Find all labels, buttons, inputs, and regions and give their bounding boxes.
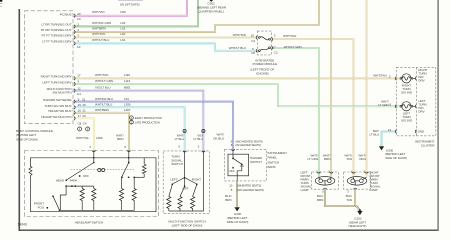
BCM internal signal labels — [41, 12, 73, 118]
svg-text:SIG IND: SIG IND — [401, 91, 413, 95]
svg-text:13: 13 — [388, 128, 392, 132]
integrated power module dashed box — [257, 31, 271, 55]
production variant circles on MF wires — [183, 129, 186, 132]
svg-text:WHT/DK BLU: WHT/DK BLU — [95, 97, 113, 101]
svg-text:19043: 19043 — [17, 222, 27, 226]
left front lamp bulb — [315, 177, 335, 186]
svg-text:CLUSTER: CLUSTER — [421, 143, 436, 147]
svg-text:BRN: BRN — [324, 157, 330, 161]
svg-text:PANEL: PANEL — [268, 156, 278, 160]
svg-text:WHT/LT GRN: WHT/LT GRN — [95, 79, 113, 83]
svg-text:ORG: ORG — [359, 157, 366, 161]
svg-text:L113: L113 — [124, 79, 131, 83]
svg-text:LT BLU: LT BLU — [369, 133, 379, 137]
svg-text:WHT/LT BLU: WHT/LT BLU — [92, 38, 109, 42]
svg-text:RIGHT: RIGHT — [192, 178, 201, 182]
svg-text:LAMP: LAMP — [301, 188, 309, 192]
wire WHT/BRN park feed (from top edge to left front lamp pin 2) — [330, 0, 332, 177]
svg-text:HDLMP SW MUX RTN: HDLMP SW MUX RTN — [41, 115, 71, 119]
BCM pin brackets — [74, 14, 75, 120]
left front park/turn signal lamp dashed box — [312, 172, 339, 189]
bottom border bar — [19, 230, 439, 231]
right lamp caption — [370, 171, 381, 193]
svg-text:WHT/YEL: WHT/YEL — [76, 136, 89, 140]
svg-text:TAN: TAN — [346, 157, 352, 161]
hazard switch bracket — [231, 149, 235, 150]
wire WHT/BRN L307 (hdlmp sw mux, to headlamp switch pin 9) — [73, 113, 129, 151]
wire WHT/LT GRN fused output (IPM pin 17 to left front turn lamp pin 1) — [272, 48, 319, 177]
svg-text:(LEFT SIDE OF DASH): (LEFT SIDE OF DASH) — [172, 224, 203, 228]
IPM pin brackets — [256, 36, 273, 53]
wire BLK/LT BLU cluster ground to G200 — [382, 132, 397, 147]
hazard feed labels — [213, 133, 224, 141]
wire WHT/DK GRN L63 (LT RR turn sig out, pin 2 to top edge) — [73, 0, 198, 26]
svg-text:LT BLU: LT BLU — [193, 137, 203, 141]
MF switch resistors — [167, 151, 204, 211]
svg-text:TAN: TAN — [346, 198, 352, 202]
ground G200 (hazard) — [234, 207, 239, 211]
ground G102 — [359, 209, 361, 211]
circled production markers under pin columns — [78, 127, 82, 131]
svg-text:LEFT TURN IND DRV: LEFT TURN IND DRV — [43, 80, 73, 84]
wire WHT/BRN L62 (RT RR turn sig out, pin 4, jog up, to top edge) — [73, 0, 319, 32]
svg-text:17: 17 — [77, 74, 81, 78]
svg-text:C8: C8 — [251, 51, 255, 55]
svg-text:17: 17 — [272, 46, 276, 50]
svg-text:INSTRUMENT: INSTRUMENT — [268, 151, 288, 155]
svg-text:C2: C2 — [274, 51, 278, 55]
svg-text:L307: L307 — [124, 108, 131, 112]
svg-text:L60: L60 — [120, 32, 125, 36]
svg-text:DRV: DRV — [418, 79, 425, 83]
svg-text:L63: L63 — [120, 21, 125, 25]
top area: liftgate connector caption — [118, 0, 143, 2]
svg-text:PARK: PARK — [70, 178, 78, 182]
svg-text:WHT/TAN: WHT/TAN — [95, 73, 108, 77]
svg-text:LATE PRODUCTION: LATE PRODUCTION — [135, 121, 160, 125]
svg-text:HEADLAMP SWITCH: HEADLAMP SWITCH — [75, 221, 104, 225]
svg-text:BANK: BANK — [268, 165, 276, 169]
svg-text:WHT/LT BLU: WHT/LT BLU — [95, 103, 112, 107]
wire WHT/TAN fused output (IPM pin 3 to right front turn lamp pin 1) — [272, 39, 354, 177]
left lamp caption — [301, 171, 312, 193]
instrument panel switch bank caption — [268, 151, 288, 169]
headlamp switch mechanical linkage dashed — [71, 169, 135, 171]
BCM pin numbers and connector ids — [77, 12, 87, 126]
headlamp switch outer dashed box — [25, 151, 159, 217]
hazard switch solid box — [228, 154, 249, 176]
lamp ground wires BLK/BRN and BLK/TAN to G102 — [325, 189, 360, 210]
svg-text:C3: C3 — [77, 17, 81, 21]
svg-text:L62: L62 — [120, 26, 125, 30]
svg-text:DK BLU: DK BLU — [213, 136, 224, 140]
svg-text:QUARTER PANEL): QUARTER PANEL) — [198, 9, 224, 13]
svg-text:(W/ HEATED SEATS): (W/ HEATED SEATS) — [236, 143, 261, 147]
svg-text:8982: 8982 — [124, 85, 131, 89]
svg-text:RT FT TURN/SIG DRV: RT FT TURN/SIG DRV — [42, 33, 73, 37]
cluster pin brackets — [395, 77, 416, 134]
svg-text:LT GRN: LT GRN — [307, 157, 318, 161]
wire WHT/VIO D25 (PCI BUS, BCM pin 20 to top edge) — [73, 0, 187, 16]
svg-text:12: 12 — [77, 86, 81, 90]
multi-function switch dashed box — [163, 151, 209, 214]
MF switch top pin labels — [175, 133, 204, 141]
svg-text:17 23: 17 23 — [78, 114, 86, 118]
right front park/turn signal lamp dashed box — [344, 172, 371, 189]
IPM wire labels — [229, 33, 302, 50]
svg-text:L91: L91 — [124, 97, 129, 101]
svg-text:LT FT TURN/SIG DRV: LT FT TURN/SIG DRV — [42, 39, 72, 43]
headlamp switch internal contacts — [53, 151, 144, 211]
headlamp switch contact dots — [46, 157, 135, 211]
svg-text:C8 C4: C8 C4 — [78, 122, 87, 126]
svg-text:HAZARD SW SENSE: HAZARD SW SENSE — [43, 98, 72, 102]
IPM pin numbers — [251, 34, 278, 55]
right lamp feed labels — [344, 153, 366, 161]
hazard ground wire BLK/BRN to G200 — [236, 181, 238, 207]
left lamp feed labels — [307, 153, 330, 161]
svg-text:FOG: FOG — [38, 205, 45, 209]
svg-text:20: 20 — [77, 12, 81, 16]
svg-text:C4: C4 — [77, 92, 81, 96]
svg-text:WHT/LT BLU: WHT/LT BLU — [229, 46, 246, 50]
svg-text:LT BLU: LT BLU — [175, 137, 185, 141]
svg-text:L110: L110 — [124, 73, 131, 77]
svg-text:D25: D25 — [120, 10, 126, 14]
headlamp switch solid box — [29, 158, 156, 212]
left lamp pin brackets — [317, 172, 333, 189]
wire name labels (BCM side) — [76, 10, 131, 140]
right front lamp bulb — [347, 177, 367, 186]
svg-text:LAMP: LAMP — [370, 188, 378, 192]
WHT/BRN label at headlamp switch feed — [116, 133, 124, 141]
svg-text:DRV: DRV — [418, 110, 425, 114]
svg-text:SWITCH: SWITCH — [268, 160, 280, 164]
svg-text:WHT/TAN: WHT/TAN — [233, 33, 246, 37]
svg-text:WHT/DK GRN: WHT/DK GRN — [92, 21, 111, 25]
svg-text:BRN: BRN — [317, 198, 323, 202]
hazard switch contacts — [233, 154, 242, 181]
svg-text:SWITCH: SWITCH — [250, 160, 262, 164]
svg-text:WHT/LT GRN: WHT/LT GRN — [284, 45, 302, 49]
ground G302 caption (top) — [209, 0, 213, 2]
svg-text:GND: GND — [418, 130, 425, 134]
BCM location caption — [16, 129, 53, 142]
svg-text:C2: C2 — [77, 45, 81, 49]
svg-text:LEFT: LEFT — [170, 178, 177, 182]
turn signal switch wiper and contacts — [172, 151, 197, 186]
svg-text:C4: C4 — [251, 39, 255, 43]
svg-text:PCI BUS: PCI BUS — [60, 12, 72, 16]
wire WHT/TAN L110 (right turn ind drv, BCM pin 17 to cluster pin 2) — [73, 77, 402, 79]
svg-text:WHT/TAN: WHT/TAN — [373, 74, 386, 78]
wire WHT/YEL L300 (hdlmp sw mux rtn, to headlamp switch pin 4) — [73, 118, 94, 150]
svg-text:OFF: OFF — [83, 174, 89, 178]
svg-text:LT RR TURN/SIG OUT: LT RR TURN/SIG OUT — [41, 22, 71, 26]
MF switch pin brackets — [183, 151, 205, 152]
svg-text:WHT/TAN: WHT/TAN — [283, 34, 296, 38]
right lamp pin brackets — [352, 172, 369, 189]
wire WHT/LT GRN L113 (left turn ind drv, BCM pin 9 to cluster pin 6) — [73, 84, 402, 106]
IPM fuse 2 (LT FT turn feed) — [258, 47, 270, 52]
wire VIO/LT BLU 8982 (multi-function sw mux rtn, pin 12 to MF switch pin 2) — [73, 91, 203, 151]
svg-text:EARLY PRODUCTION: EARLY PRODUCTION — [135, 116, 162, 120]
svg-text:HEAD: HEAD — [56, 178, 65, 182]
svg-text:VIO/LT BLU: VIO/LT BLU — [95, 85, 111, 89]
headlamp switch pin brackets and numbers — [92, 151, 131, 152]
wire WHT/ORG park feed (from top edge to right front lamp pin 2) — [366, 0, 368, 177]
wire WHT/DK BLU (hazard sw sense, to hazard switch) — [73, 102, 233, 155]
ground G200 (cluster) — [379, 146, 384, 150]
left border bar — [19, 9, 21, 231]
wire WHT/TAN L60 (RT FT turn sig drv, pin 3 to IPM pin 10) — [73, 37, 257, 39]
cluster left turn indicator bulb — [402, 102, 411, 111]
svg-text:SIG IND: SIG IND — [401, 118, 413, 122]
svg-text:TURN SIG SW MUX: TURN SIG SW MUX — [44, 104, 71, 108]
svg-text:WHT/TAN: WHT/TAN — [92, 32, 105, 36]
svg-text:RIGHT TURN IND DRV: RIGHT TURN IND DRV — [41, 75, 73, 79]
svg-text:SW MUX RTN: SW MUX RTN — [53, 90, 72, 94]
instrument cluster dashed box — [396, 67, 435, 135]
wire WHT/LT BLU L61 (LT FT turn sig drv, pin 1 to IPM pin 6) — [73, 43, 257, 50]
svg-text:SIDE OF DASH): SIDE OF DASH) — [227, 220, 249, 224]
svg-text:19 26: 19 26 — [78, 103, 86, 107]
svg-text:BRN: BRN — [117, 137, 123, 141]
svg-text:OFF: OFF — [229, 169, 235, 173]
svg-text:SWITCH: SWITCH — [171, 162, 183, 166]
cluster indicator labels — [418, 68, 427, 114]
svg-text:SIDE OF DASH): SIDE OF DASH) — [385, 156, 407, 160]
right border bar — [437, 0, 439, 231]
turn signal switch caption — [171, 155, 183, 166]
svg-text:9 31: 9 31 — [78, 98, 86, 102]
svg-text:POWER MODULE: POWER MODULE — [252, 62, 277, 66]
svg-text:WHT/BRN: WHT/BRN — [95, 108, 109, 112]
svg-text:L300: L300 — [96, 136, 103, 140]
svg-text:HDLMP SW MUX: HDLMP SW MUX — [48, 109, 71, 113]
svg-text:WHT/VIO: WHT/VIO — [92, 10, 105, 14]
svg-text:ENGINE): ENGINE) — [256, 71, 268, 75]
svg-text:HEADLIGHT): HEADLIGHT) — [348, 224, 366, 228]
svg-text:L61: L61 — [120, 38, 125, 42]
wire WHT/LT BLU L306 (turn sig sw mux, to MF switch pin 5) — [73, 107, 185, 151]
svg-text:SIDE OF DASH): SIDE OF DASH) — [16, 137, 38, 141]
svg-text:L306: L306 — [124, 103, 131, 107]
svg-text:BRN: BRN — [225, 198, 231, 202]
corner registration black square — [0, 0, 2, 2]
svg-text:10: 10 — [251, 34, 255, 38]
svg-text:(W/O HEATED SEATS): (W/O HEATED SEATS) — [237, 188, 264, 192]
instrument cluster internal dashed divider — [415, 67, 417, 135]
svg-text:WHT/BRN: WHT/BRN — [92, 26, 106, 30]
IPM caption — [250, 58, 277, 75]
instrument panel switch bank dashed box — [225, 149, 267, 181]
cluster right turn indicator bulb — [402, 74, 411, 83]
svg-text:(IN LIFTGATE): (IN LIFTGATE) — [120, 2, 140, 6]
svg-text:16 21: 16 21 — [78, 109, 86, 113]
svg-text:LT GRN: LT GRN — [378, 103, 389, 107]
svg-text:(W/HEATED SEATS): (W/HEATED SEATS) — [237, 183, 262, 187]
svg-text:RT RR TURN/SIG OUT: RT RR TURN/SIG OUT — [41, 28, 72, 32]
svg-text:ON: ON — [240, 164, 244, 168]
IPM fuse 1 (RT FT turn feed) — [258, 37, 270, 41]
headlamp switch resistors — [80, 164, 146, 202]
body control module dashed box — [25, 11, 73, 124]
early/late production legend — [130, 116, 134, 120]
